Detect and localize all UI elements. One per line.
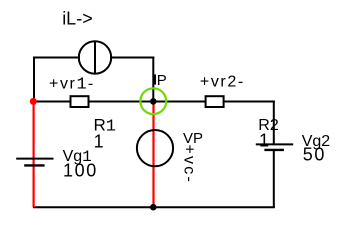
pin tick on wire at node P [153, 74, 156, 84]
wire R1 to node P [89, 101, 153, 103]
svg-text:iL->: iL-> [62, 9, 93, 29]
svg-text:50: 50 [303, 144, 326, 164]
voltage source Vg1 battery short plate [24, 164, 44, 166]
wire top-left horizontal to ammeter [33, 57, 80, 59]
voltage source Vg1 battery long plate [16, 158, 53, 160]
resistor R1 [71, 96, 89, 107]
wire right vertical down to Vg2 [273, 101, 275, 145]
wire top-right vertical down to node P [152, 57, 154, 102]
wire node A to resistor R1 [33, 101, 70, 103]
node P green highlight circle [140, 88, 166, 114]
wire ammeter to top-right corner [110, 57, 154, 59]
wire middle vertical (red highlighted, node P through VP to bottom) [152, 102, 154, 208]
svg-text:1: 1 [259, 131, 269, 151]
svg-text:1: 1 [94, 131, 104, 151]
svg-text:+vr2-: +vr2- [200, 73, 245, 90]
wire node P to resistor R2 [153, 101, 205, 103]
ammeter probe iL (circle with vertical bar) [79, 41, 111, 73]
svg-text:P: P [157, 72, 167, 89]
wire left vertical (red highlighted, through Vg1) [32, 102, 34, 208]
svg-text:100: 100 [63, 161, 98, 181]
node P junction dot [150, 98, 157, 105]
wire R2 to top-right corner [224, 101, 275, 103]
wire Vg2 to bottom-right corner [273, 150, 275, 208]
svg-text:+vr1-: +vr1- [49, 75, 95, 94]
wire bottom horizontal [33, 206, 275, 208]
resistor R2 [206, 96, 224, 107]
wire top-left vertical (node A to ammeter lead) [33, 57, 35, 102]
voltage source Vg2 battery long plate [256, 143, 293, 145]
bottom junction dot [150, 204, 157, 211]
svg-text:+vc-: +vc- [181, 145, 198, 184]
node A junction dot (red) [30, 98, 37, 105]
voltage source Vg2 battery short plate [264, 149, 284, 151]
voltage probe VP circle [137, 130, 173, 166]
